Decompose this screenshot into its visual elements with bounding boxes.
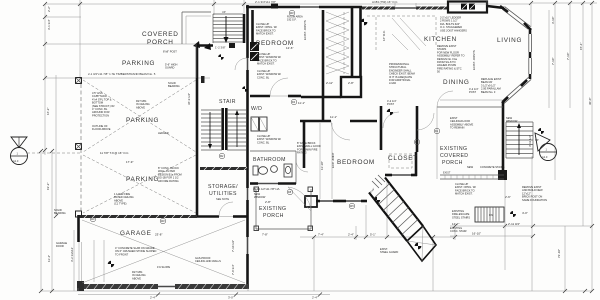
chimney box — [341, 77, 361, 97]
wall: closet east vertical — [415, 152, 418, 176]
svg-text:DN: DN — [489, 213, 493, 217]
wall: stair/storage west wall — [195, 44, 213, 217]
svg-text:GARAGE: GARAGE — [120, 230, 152, 237]
wall: storage north (hatched) — [200, 167, 247, 170]
wall: bedroom1 east wall — [322, 10, 325, 120]
dimension grid right — [450, 3, 592, 291]
svg-text:POST: POST — [387, 102, 394, 106]
svg-text:7'-10": 7'-10" — [551, 58, 555, 65]
svg-text:WINDOW: WINDOW — [254, 195, 266, 199]
svg-text:7'-10 1/2": 7'-10 1/2" — [231, 240, 235, 252]
svg-text:LEDGER: LEDGER — [158, 131, 169, 135]
stair main interior (left, two flights) — [201, 108, 246, 150]
dimension grid bottom — [41, 180, 592, 291]
svg-text:A1.0: A1.0 — [13, 159, 19, 163]
svg-text:16'-2": 16'-2" — [46, 108, 50, 115]
svg-text:DOOR: DOOR — [56, 244, 64, 248]
brick post porch SE corner — [498, 170, 507, 180]
wall: living bay angled NE — [487, 6, 531, 30]
svg-text:19'-2": 19'-2" — [46, 183, 50, 190]
svg-text:LIVING: LIVING — [497, 37, 522, 44]
wall: bedroom1 south wall w/ door opening — [250, 95, 301, 98]
svg-text:BEARING: BEARING — [54, 211, 66, 215]
wall: dining bay angled SE — [502, 77, 531, 103]
svg-text:7'-8 3/4": 7'-8 3/4" — [231, 264, 235, 275]
svg-text:23'-8": 23'-8" — [155, 233, 162, 237]
walls at y=121 bedroom2 north — [300, 120, 377, 123]
wall: bedroom2 west — [303, 121, 306, 168]
svg-text:BATHROOM: BATHROOM — [253, 157, 286, 163]
svg-text:STEEL GUARD: STEEL GUARD — [380, 250, 398, 254]
svg-text:CONC. BL: CONC. BL — [257, 75, 270, 79]
wall: porch east wall — [502, 102, 505, 172]
svg-text:(C1 TYPE): (C1 TYPE) — [114, 202, 127, 206]
zigzag hatch strip (old stair shaft) — [326, 12, 349, 74]
svg-text:2'-11 3/4": 2'-11 3/4" — [508, 222, 520, 226]
white hatch ticks over hatched walls — [84, 6, 446, 289]
svg-text:3'-1 3/4": 3'-1 3/4" — [47, 19, 51, 30]
svg-text:PARKING: PARKING — [126, 176, 159, 183]
wall: storage south — [197, 215, 247, 218]
svg-text:7'-4": 7'-4" — [318, 233, 324, 237]
svg-text:36'-9 1/4": 36'-9 1/4" — [187, 93, 191, 105]
svg-text:TO REMAIN: TO REMAIN — [450, 126, 464, 130]
svg-text:3'-11 1/2": 3'-11 1/2" — [528, 135, 532, 147]
svg-text:PROTECTION: PROTECTION — [92, 113, 109, 117]
svg-text:COVERED: COVERED — [142, 31, 179, 38]
svg-text:W/D: W/D — [251, 106, 262, 112]
exp joint thin lines bedroom2 — [319, 123, 321, 199]
svg-text:A1.0: A1.0 — [542, 155, 548, 159]
wall: south landing wall w/ window — [385, 174, 417, 177]
svg-text:GUARD: GUARD — [165, 66, 174, 70]
porch front edge band (existing covered porch) — [440, 175, 504, 179]
svg-text:CLOSET: CLOSET — [388, 155, 418, 162]
elevation marker left — [11, 137, 81, 165]
svg-text:17'-9": 17'-9" — [126, 160, 133, 164]
svg-text:COVERED: COVERED — [440, 153, 468, 159]
svg-text:6'-0": 6'-0" — [321, 60, 325, 66]
svg-text:4'-0": 4'-0" — [522, 211, 528, 215]
svg-text:PORCH: PORCH — [442, 160, 463, 166]
svg-text:8"x8" POST: 8"x8" POST — [163, 50, 177, 54]
bathroom sink — [271, 166, 278, 173]
svg-text:PORCH: PORCH — [147, 39, 174, 46]
parking columns with X — [76, 78, 82, 218]
svg-text:FIRE RATING & STC: FIRE RATING & STC — [437, 66, 462, 70]
dimension grid top — [45, 0, 597, 78]
svg-text:LOAD: LOAD — [389, 81, 396, 85]
svg-text:9'-6": 9'-6" — [321, 26, 325, 32]
svg-text:MATCH EXIST.: MATCH EXIST. — [455, 192, 473, 196]
wall: dining south / porch north — [437, 106, 503, 108]
svg-text:UTILITIES: UTILITIES — [209, 191, 237, 197]
wall: garage south (brick hatched) — [84, 284, 249, 289]
svg-text:2'-2": 2'-2" — [47, 6, 51, 12]
svg-text:MATCH EXIST.: MATCH EXIST. — [256, 32, 274, 36]
svg-text:5'-1": 5'-1" — [370, 233, 376, 237]
bathroom vanity right — [284, 164, 292, 177]
svg-text:16'-10": 16'-10" — [472, 232, 481, 236]
svg-text:MATCH EXIST.: MATCH EXIST. — [257, 62, 275, 66]
washer dryer boxes — [251, 117, 267, 131]
svg-text:3'-0": 3'-0" — [321, 42, 325, 48]
fireplace box living north — [448, 2, 487, 13]
stair diagonal (existing steel stair, SE) — [369, 178, 436, 262]
wall: main north wall of bedroom (top) — [246, 4, 362, 9]
wall: living east wall with windows — [529, 28, 532, 79]
wall: garage west w/ door opening — [77, 215, 84, 291]
svg-text:1% SLOPE: 1% SLOPE — [157, 265, 170, 269]
door arcs — [219, 58, 434, 216]
svg-text:EXISTING: EXISTING — [259, 206, 286, 212]
svg-text:NEW: NEW — [467, 165, 474, 169]
wall: kitchen west double wall — [344, 7, 361, 76]
svg-text:7'-8": 7'-8" — [262, 233, 268, 237]
svg-text:CONCRETE STAIRS: CONCRETE STAIRS — [480, 165, 505, 169]
wall: west wall of house — [246, 5, 249, 288]
svg-text:11'-1": 11'-1" — [330, 115, 337, 119]
svg-text:TO FRONT: TO FRONT — [115, 252, 129, 256]
svg-text:A=83 (753) 16" O.C.: A=83 (753) 16" O.C. — [372, 0, 398, 4]
svg-text:11'-1": 11'-1" — [298, 101, 305, 105]
svg-text:16" O.C.: 16" O.C. — [382, 30, 386, 41]
svg-text:BEARING: BEARING — [168, 84, 180, 88]
svg-text:STAIR: STAIR — [219, 99, 236, 105]
svg-text:11'-4": 11'-4" — [47, 255, 51, 262]
closet dashed outline — [389, 154, 412, 168]
svg-text:15'-4": 15'-4" — [579, 43, 583, 50]
fire-escape steel stair — [475, 207, 504, 222]
garage thin diagonals — [82, 220, 245, 283]
svg-text:2'-4": 2'-4" — [150, 296, 156, 300]
wall: kitchen north (brick hatched) — [362, 7, 448, 10]
svg-text:SAME FOUNDATION: SAME FOUNDATION — [522, 198, 547, 202]
svg-text:KITCHEN: KITCHEN — [424, 36, 457, 43]
covered porch deck top-left — [182, 12, 235, 50]
svg-text:USE JOIST HANGERS: USE JOIST HANGERS — [440, 28, 467, 32]
svg-text:ABOVE: ABOVE — [136, 105, 145, 109]
elevation marker right — [535, 133, 557, 161]
svg-text:2'-11": 2'-11" — [326, 81, 333, 85]
svg-text:2'-1 3/4"x11 7/8": 2'-1 3/4"x11 7/8" — [255, 0, 276, 4]
svg-text:CEILING AND WALLS: CEILING AND WALLS — [195, 259, 221, 263]
svg-text:RATING: RATING — [297, 151, 307, 155]
svg-text:EXP. JOINT: EXP. JOINT — [331, 152, 335, 168]
svg-text:2'-6": 2'-6" — [505, 195, 511, 199]
svg-text:PORCH: PORCH — [263, 213, 284, 219]
svg-text:EXIST. JOISTS: EXIST. JOISTS — [303, 20, 307, 40]
svg-text:72'-10": 72'-10" — [557, 249, 561, 258]
wall: bedroom2 south w/ windows — [305, 196, 367, 207]
svg-text:3'-0": 3'-0" — [228, 296, 234, 300]
svg-text:11 7/8" TJI @ 16" O.C.: 11 7/8" TJI @ 16" O.C. — [100, 151, 129, 155]
svg-text:STORAGE/: STORAGE/ — [208, 184, 238, 190]
svg-text:2-1 3/4"x11 7/8" 1.7E TIMBERST: 2-1 3/4"x11 7/8" 1.7E TIMBERSTRAND BEAM … — [88, 72, 156, 76]
svg-text:11'-10": 11'-10" — [320, 161, 324, 170]
svg-text:CONC. BL: CONC. BL — [257, 140, 270, 144]
svg-text:2'-4": 2'-4" — [348, 233, 354, 237]
svg-text:SEE NOTE: SEE NOTE — [216, 197, 229, 201]
svg-text:45.3-1 1/2"x11 7/8" LVL: 45.3-1 1/2"x11 7/8" LVL — [253, 187, 281, 191]
wall: hall south y=97 — [301, 96, 341, 99]
bottom garage dim string — [78, 293, 330, 300]
garage interior dim lines — [94, 240, 104, 282]
svg-text:2'-8": 2'-8" — [348, 81, 354, 85]
posts at entry (two dark squares) — [250, 42, 259, 61]
svg-text:2'-8": 2'-8" — [265, 200, 271, 204]
svg-text:CONC. STAIR: CONC. STAIR — [450, 229, 467, 233]
svg-text:12'-6": 12'-6" — [286, 46, 293, 50]
svg-text:7'-10": 7'-10" — [566, 53, 570, 60]
wall: garage north — [78, 215, 197, 218]
extension lines — [78, 1, 531, 291]
svg-text:HR FIRE RATING: HR FIRE RATING — [158, 179, 179, 183]
svg-text:ABOVE: ABOVE — [132, 276, 141, 280]
wall tag circles — [90, 10, 440, 224]
stair upper (to second floor, top-left) — [213, 10, 243, 50]
svg-text:PARKING: PARKING — [126, 117, 159, 124]
dimension grid left — [41, 0, 80, 291]
svg-text:BEAM No. 3: BEAM No. 3 — [481, 90, 496, 94]
svg-text:3'-2 1/2x12': 3'-2 1/2x12' — [70, 247, 74, 262]
parking dashed boundary + diagonals — [81, 80, 196, 214]
svg-text:30'-0": 30'-0" — [588, 98, 592, 105]
svg-text:BEDROOM: BEDROOM — [337, 159, 375, 166]
svg-text:POST: POST — [469, 90, 476, 94]
kitchen removed-stair dashed lines — [367, 16, 436, 50]
svg-text:STEEL STAIRS: STEEL STAIRS — [452, 215, 470, 219]
wall stub top of stair — [201, 76, 205, 83]
stair new concrete (right porch) — [506, 122, 539, 158]
svg-text:3'-10": 3'-10" — [551, 17, 555, 24]
annotation text blocks — [54, 15, 547, 281]
wall: bathroom outline — [250, 151, 296, 184]
svg-text:192 S.F.: 192 S.F. — [287, 18, 297, 22]
svg-text:FLOOR ABOVE: FLOOR ABOVE — [92, 127, 111, 131]
wall: hall west x=383 — [380, 106, 383, 150]
bathroom toilet — [253, 166, 268, 175]
wall: bedroom1 west wall (stair side) — [244, 10, 253, 43]
svg-text:WINDOW: WINDOW — [506, 119, 518, 123]
svg-text:EXIST: EXIST — [443, 171, 451, 175]
svg-text:1'-2 3/8": 1'-2 3/8" — [215, 46, 226, 50]
dining door arc — [437, 91, 453, 107]
svg-text:EXIST. JOISTS: EXIST. JOISTS — [472, 50, 476, 70]
svg-text:DINING: DINING — [443, 79, 470, 86]
svg-text:UP: UP — [222, 10, 226, 14]
svg-text:2'-4": 2'-4" — [312, 296, 318, 300]
landing hatch ticks at stair top — [372, 175, 385, 188]
wall: hall east x=417 — [416, 106, 419, 152]
existing porch outline with posts — [254, 187, 313, 231]
dimension texts — [100, 46, 528, 237]
section cut clover symbols — [108, 19, 544, 268]
svg-text:EXISTING: EXISTING — [440, 146, 467, 152]
svg-text:PARKING: PARKING — [122, 60, 155, 67]
